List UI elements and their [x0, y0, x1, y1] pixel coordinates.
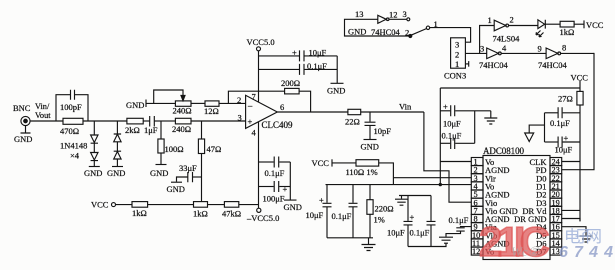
inverter U4A 74LS04 (pins 1-2) — [488, 15, 521, 44]
power VCC (left rail) — [91, 200, 116, 210]
svg-text:220Ω: 220Ω — [375, 204, 394, 214]
resistor 110Ω 1% — [346, 160, 379, 177]
wire loop top — [402, 195, 432, 197]
capacitor 33μF — [177, 163, 202, 182]
ground (VCC5.0 bypass) — [327, 56, 345, 96]
pin 5 AGND — [471, 190, 509, 200]
svg-text:4: 4 — [252, 128, 257, 138]
svg-text:3: 3 — [455, 40, 459, 50]
svg-text:0.1μF: 0.1μF — [307, 61, 327, 71]
svg-text:10μF: 10μF — [387, 228, 405, 238]
resistor 2kΩ — [125, 118, 143, 135]
resistor 12Ω — [191, 101, 219, 116]
capacitor 10μF (clk filter) — [545, 133, 581, 155]
wire pin 16 to earth — [562, 227, 586, 236]
capacitor 10μF (VCC5.0 bypass) — [259, 48, 338, 62]
svg-text:2: 2 — [455, 50, 459, 60]
SECTION: mid network — [306, 158, 472, 251]
capacitor 0.1μF (ADC pin9) — [446, 215, 471, 237]
wire pin4 down — [258, 122, 260, 208]
svg-text:1N4148: 1N4148 — [60, 141, 87, 151]
ground (D1 D2) — [84, 167, 102, 179]
pin 17 DR GND — [514, 214, 562, 224]
ground (BNC) — [14, 126, 32, 144]
svg-text:+: + — [443, 102, 448, 112]
pin 3 Vir — [471, 173, 496, 183]
SECTION: top logic — [345, 9, 604, 81]
wire 47kΩ to -VCC5.0 node — [239, 204, 259, 206]
svg-text:GND: GND — [14, 134, 32, 144]
wire 2kΩ to 1μF — [143, 120, 150, 122]
inverter U3B 74HC04 (pins 3-4) — [479, 43, 509, 70]
svg-text:3: 3 — [403, 9, 407, 19]
capacitor 10μF (Vo rail) — [306, 185, 332, 238]
pin 1 Vo — [471, 157, 494, 167]
resistor 27Ω vertical — [558, 91, 583, 221]
wire 110Ω down to Vir/Vo rails — [379, 163, 394, 185]
svg-text:9: 9 — [538, 44, 542, 54]
svg-text:0.1μF: 0.1μF — [442, 131, 462, 141]
svg-text:VCC5.0: VCC5.0 — [247, 37, 275, 47]
svg-text:10pF: 10pF — [374, 126, 392, 136]
svg-text:2kΩ: 2kΩ — [125, 125, 140, 135]
pin 16 D4 — [536, 222, 562, 232]
wire VCC to 1kΩ — [116, 204, 132, 206]
diode pair D1 D2 (down) — [91, 121, 98, 166]
svg-text:0.1μF: 0.1μF — [410, 228, 430, 238]
potentiometer 240Ω with wiper — [154, 90, 192, 116]
resistor 240Ω (lower) — [172, 118, 191, 134]
svg-text:+: + — [248, 117, 253, 127]
SECTION: adc — [440, 53, 594, 260]
wire to ADC pin1 — [440, 161, 471, 163]
wire oscillator loop — [345, 19, 410, 36]
wire rail to pin 18 — [562, 209, 580, 211]
wire VCC to 110Ω — [332, 162, 356, 164]
svg-text:1%: 1% — [374, 215, 385, 225]
svg-text:10μF: 10μF — [309, 48, 327, 58]
wire node A to 2kΩ — [88, 120, 127, 122]
svg-text:VCC: VCC — [586, 20, 604, 30]
wire loop bottom — [408, 243, 446, 246]
feedback wire pin2 up — [228, 91, 284, 103]
svg-text:GND: GND — [167, 184, 185, 194]
wire GND to pot — [146, 102, 175, 104]
pin 24 CLK — [530, 157, 562, 167]
label GND tick (upper row) — [126, 100, 146, 111]
svg-text:110Ω 1%: 110Ω 1% — [346, 167, 378, 177]
svg-text:240Ω: 240Ω — [172, 124, 191, 134]
svg-text:74HC04: 74HC04 — [479, 60, 509, 70]
svg-text:6744: 6744 — [559, 244, 613, 261]
svg-text:6: 6 — [280, 102, 284, 112]
resistor 47kΩ — [222, 202, 241, 219]
wire switch to CON3 pin3 — [430, 28, 471, 43]
wire rail to pin 17 — [562, 219, 580, 222]
svg-text:VCC: VCC — [312, 158, 330, 168]
pin 12 Vo — [471, 247, 494, 257]
pin 22 D0 — [536, 173, 562, 183]
ground (-VCC5.0 bypass) — [284, 162, 302, 212]
svg-text:100μF: 100μF — [263, 194, 285, 204]
wire top rail to VCC/27Ω — [440, 87, 580, 89]
ground (earth, pin16) — [580, 236, 593, 242]
svg-text:Vin: Vin — [399, 102, 412, 112]
svg-text:GND: GND — [107, 168, 125, 178]
pin 9 Via — [471, 222, 497, 232]
wire output row — [277, 111, 348, 113]
wire to ADC pin3 Vir — [393, 177, 471, 179]
svg-text:33μF: 33μF — [179, 163, 197, 173]
node junction dot — [439, 183, 442, 186]
svg-text:+: + — [283, 184, 288, 194]
capacitor 0.1μF (-VCC5.0 bypass) — [259, 157, 291, 179]
svg-text:4: 4 — [502, 43, 507, 53]
capacitor 100μF (-VCC5.0 bypass) — [259, 181, 291, 204]
connector J1 BNC — [13, 102, 51, 126]
svg-text:0.1μF: 0.1μF — [449, 215, 469, 225]
SECTION: watermark — [479, 218, 613, 265]
diode pair D3 D4 (up) — [114, 121, 121, 166]
svg-text:GND: GND — [84, 168, 102, 178]
wire Vin to ADC pin6 — [424, 112, 471, 202]
wire U3C out — [561, 52, 594, 54]
svg-text:200Ω: 200Ω — [281, 78, 300, 88]
svg-text:7: 7 — [252, 92, 256, 102]
switch S1 — [405, 19, 438, 38]
wire 200Ω to output — [299, 91, 311, 112]
wire Vo rail to ADC pin4 — [326, 184, 472, 186]
capacitor 10μF (loop) — [387, 196, 415, 247]
pin 20 D2 — [536, 190, 562, 200]
svg-text:GND: GND — [150, 168, 168, 178]
ground (100Ω) — [150, 165, 168, 179]
svg-text:VCC: VCC — [571, 73, 589, 83]
svg-text:+: + — [319, 195, 324, 205]
pin 14 D6 — [536, 239, 562, 249]
svg-text:GND: GND — [126, 100, 144, 110]
svg-text:GND: GND — [348, 27, 366, 37]
svg-text:47Ω: 47Ω — [207, 144, 222, 154]
svg-text:2: 2 — [510, 15, 514, 25]
ground (earth, mid cluster) — [362, 238, 376, 251]
svg-text:VCC: VCC — [91, 200, 109, 210]
svg-text:ADC08100: ADC08100 — [483, 146, 525, 156]
wire CON3 pin2 to logic inputs — [465, 52, 486, 54]
wire 74LS04 out to LED — [509, 25, 538, 27]
svg-text:8: 8 — [562, 43, 566, 53]
svg-text:1μF: 1μF — [144, 125, 158, 135]
resistor 47Ω vertical — [198, 121, 221, 202]
svg-text:–VCC5.0: –VCC5.0 — [246, 213, 279, 223]
svg-text:22Ω: 22Ω — [345, 117, 360, 127]
svg-text:CON3: CON3 — [444, 71, 466, 81]
power VCC (mid) — [312, 158, 333, 168]
svg-text:+: + — [410, 212, 415, 222]
svg-text:1: 1 — [488, 15, 492, 25]
resistor 1kΩ (second) — [193, 202, 208, 219]
svg-text:12Ω: 12Ω — [204, 106, 219, 116]
resistor 200Ω feedback — [281, 78, 300, 94]
wire CON3 pin1 stub — [465, 61, 468, 67]
svg-text:74LS04: 74LS04 — [493, 34, 521, 44]
capacitor 0.1μF (clk filter) — [545, 107, 581, 128]
power VCC5.0 terminal — [247, 37, 275, 51]
resistor 220Ω 1% vertical — [367, 185, 394, 238]
svg-text:1kΩ: 1kΩ — [132, 208, 147, 218]
svg-text:47kΩ: 47kΩ — [222, 209, 241, 219]
capacitor 1μF — [144, 116, 161, 135]
ground (earth, pin9) — [439, 237, 453, 243]
inverter U3C 74HC04 (pins 9-8) — [538, 43, 568, 71]
pin 18 DR Vd — [522, 206, 561, 216]
wire Vo bypass vertical — [439, 88, 441, 185]
SECTION: opamp — [228, 37, 471, 212]
capacitor 10μF (Vo bypass) — [440, 102, 491, 129]
pin 13 D7 — [536, 247, 562, 257]
svg-text:27Ω: 27Ω — [558, 94, 573, 104]
svg-text:3: 3 — [480, 44, 484, 54]
pin 15 D5 — [536, 230, 562, 240]
svg-text:BNC: BNC — [13, 103, 31, 113]
svg-text:Wc②: Wc② — [511, 244, 541, 259]
connector CON3 — [444, 38, 466, 81]
wire U3B to U3C — [501, 52, 546, 54]
svg-text:74HC04: 74HC04 — [538, 60, 568, 70]
svg-text:1: 1 — [455, 59, 459, 69]
wire 22Ω to Vin corner — [361, 111, 424, 113]
pin 21 D1 — [536, 182, 562, 192]
resistor 1kΩ (first) — [132, 202, 148, 218]
svg-text:+: + — [564, 133, 569, 143]
pin 7 Vio GND — [471, 206, 517, 216]
ground (earth, loop left) — [395, 196, 408, 206]
svg-text:10μF: 10μF — [306, 210, 324, 220]
svg-text:0.1μF: 0.1μF — [550, 118, 570, 128]
wire to 47kΩ — [208, 204, 225, 206]
svg-text:240Ω: 240Ω — [173, 106, 192, 116]
power -VCC5.0 terminal — [246, 208, 279, 223]
power VCC (27Ω) — [571, 73, 589, 92]
svg-text:10μF: 10μF — [555, 145, 573, 155]
svg-text:1kΩ: 1kΩ — [193, 209, 208, 219]
svg-text:12: 12 — [389, 10, 398, 20]
resistor 470Ω — [56, 118, 88, 136]
svg-text:3: 3 — [238, 113, 242, 123]
wire LED to 1kΩ — [545, 23, 560, 25]
wire clk filter left vertical — [544, 113, 546, 142]
wire node B to 240Ω — [161, 120, 175, 122]
capacitor 0.1μF (loop) — [410, 196, 436, 247]
ground (D3 D4) — [107, 167, 125, 179]
svg-text:10μF: 10μF — [443, 119, 461, 129]
wire junction up to 74LS04 input — [480, 26, 495, 54]
svg-text:×4: ×4 — [70, 151, 80, 161]
svg-text:0.1μF: 0.1μF — [265, 168, 285, 178]
pin 11 AGND — [471, 239, 509, 249]
pin 8 AGND — [471, 214, 509, 224]
LED D5 — [536, 20, 545, 37]
wire 1kΩ to 1kΩ — [148, 204, 194, 206]
svg-text:Vout: Vout — [35, 111, 51, 120]
resistor 1kΩ (LED) — [560, 21, 575, 37]
capacitor 100pF feedback loop — [56, 90, 88, 121]
svg-text:74HC04: 74HC04 — [371, 27, 401, 37]
wire bottom rail — [327, 237, 373, 239]
ground (10pF) — [361, 140, 379, 152]
svg-text:GND: GND — [361, 142, 379, 152]
svg-text:1kΩ: 1kΩ — [560, 27, 575, 37]
capacitor 0.1μF (Vo rail) — [332, 185, 358, 238]
wire PD up to 74HC04 pin8 — [562, 53, 594, 170]
ADC U2 ADC08100 — [483, 146, 550, 260]
op-amp U1 CLC409 — [237, 92, 293, 138]
pin 4 Vo — [471, 182, 494, 192]
svg-text:–: – — [247, 100, 253, 110]
power VCC (LED) — [574, 20, 604, 30]
ground (33μF) — [167, 182, 185, 194]
svg-text:CLC409: CLC409 — [262, 120, 294, 130]
ground (arrow AGND) — [525, 125, 545, 141]
wire inverter out to node 3 — [389, 18, 407, 20]
resistor 100Ω vertical — [158, 121, 184, 164]
pin 19 D3 — [536, 198, 562, 208]
capacitor 0.1μF (Vo bypass) — [440, 131, 474, 150]
inverter U3A 74HC04 (pins 13-12) — [348, 9, 401, 37]
svg-text:GND: GND — [327, 86, 345, 96]
wire CLK to rail — [562, 161, 580, 163]
svg-text:2: 2 — [237, 95, 241, 105]
wire 240Ω to op-amp pin3 — [191, 120, 246, 122]
wire pin7 to VCC5.0 — [258, 51, 260, 102]
svg-text:Vin/: Vin/ — [35, 102, 50, 111]
svg-text:2: 2 — [405, 28, 409, 38]
svg-text:100Ω: 100Ω — [165, 144, 184, 154]
svg-text:+: + — [292, 48, 297, 58]
wire bypass right vertical — [474, 111, 476, 144]
svg-text:100pF: 100pF — [60, 102, 82, 112]
svg-text:470Ω: 470Ω — [60, 126, 79, 136]
pin 23 PD — [536, 165, 562, 175]
capacitor 10pF — [365, 112, 392, 139]
node 3 terminal — [403, 9, 410, 21]
ground (earth, Vo bypass) — [484, 111, 497, 124]
wire BNC to node A — [30, 120, 56, 122]
svg-text:13: 13 — [355, 9, 364, 19]
pin 10 Vib — [471, 230, 497, 240]
resistor 22Ω — [345, 109, 361, 126]
capacitor 0.1μF (VCC5.0 bypass) — [259, 61, 338, 75]
pin 6 Vio — [471, 198, 497, 208]
pin 2 AGND — [471, 165, 509, 175]
svg-text:0.1μF: 0.1μF — [332, 211, 352, 221]
svg-text:GND: GND — [284, 202, 302, 212]
wire 12Ω to op-amp pin2 — [219, 102, 246, 104]
label 1N4148 x4 — [60, 141, 87, 161]
SECTION: input stage — [13, 90, 279, 223]
